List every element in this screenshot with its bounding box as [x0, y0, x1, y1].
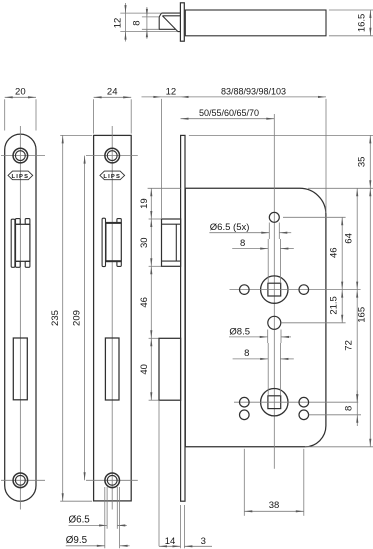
cylinder hole centerline — [281, 322, 345, 324]
svg-text:50/55/60/65/70: 50/55/60/65/70 — [199, 108, 259, 118]
dimension 16.5 extension lines — [329, 10, 373, 36]
svg-text:LIPS: LIPS — [12, 174, 30, 180]
upper follower hub — [261, 276, 288, 303]
figure2 latch bolt body — [106, 223, 121, 261]
dimension diameter 9.5 extension lines — [105, 487, 120, 548]
top view lock case — [185, 10, 326, 36]
svg-text:8: 8 — [131, 20, 142, 25]
svg-text:LIPS: LIPS — [103, 174, 121, 180]
figure2 top screw hole centerline — [86, 155, 138, 157]
dimension 16.5 line and arrows — [369, 10, 371, 36]
lower left screw holes — [240, 397, 250, 419]
figure2 vertical centerline — [111, 126, 113, 510]
dimension 20 label — [15, 87, 26, 98]
dimension 46 right label — [329, 247, 340, 258]
dimension 8 upper square extension lines — [268, 239, 280, 283]
figure1 bottom screw hole — [13, 473, 28, 488]
case top extension line — [308, 187, 373, 189]
svg-text:16.5: 16.5 — [356, 14, 367, 33]
upper follower square hole — [268, 283, 281, 296]
svg-text:235: 235 — [50, 310, 61, 326]
side view latch bolt — [162, 219, 181, 266]
figure2 latch bolt left strip — [102, 218, 105, 266]
lower follower square hole — [268, 396, 281, 409]
dimension 38 label — [269, 500, 280, 511]
figure1 latch cutout corner tabs — [16, 219, 30, 268]
dimension 83/88/93/98/103 right extension line — [325, 99, 327, 213]
dimension 235 line and arrows — [62, 135, 64, 501]
cylinder hole 8.5 — [268, 316, 281, 329]
dimension 35 label — [357, 157, 368, 168]
dimension diameter 9.5 line and arrows — [66, 545, 130, 547]
figure2 latch bolt bottom-right tab — [117, 261, 121, 266]
svg-text:24: 24 — [107, 87, 118, 98]
dimension 8 (top view) label — [131, 20, 142, 25]
svg-text:8: 8 — [343, 406, 354, 411]
dimension 12/83 shared dimension line — [142, 96, 327, 98]
dimension 35 line and arrows — [369, 135, 371, 188]
dimension diameter 6.5 line and arrows — [69, 524, 127, 526]
side view faceplate strip — [181, 135, 185, 501]
svg-text:Ø9.5: Ø9.5 — [66, 535, 88, 546]
dimension 12 (top view) label — [113, 18, 124, 29]
dimension 46 right line and arrows — [341, 217, 343, 289]
dimension 8 lower square label — [244, 348, 249, 359]
dimension 40 label — [139, 364, 150, 375]
svg-text:40: 40 — [139, 364, 150, 375]
faceplate top extension line — [189, 134, 373, 136]
dimension 8 (top view) line and arrows — [146, 7, 148, 39]
case bottom extension line — [305, 446, 373, 448]
figure1 vertical centerline — [19, 126, 21, 510]
svg-text:12: 12 — [113, 18, 124, 29]
svg-text:14: 14 — [165, 536, 176, 547]
dimension 12 (latch protrusion) extension line — [160, 99, 162, 219]
figure1 deadbolt opening — [13, 338, 27, 400]
dimension 24 line and arrows — [94, 96, 132, 98]
case vertical centerline — [273, 114, 275, 469]
svg-text:3: 3 — [201, 536, 206, 547]
figure2 latch bolt top flange line — [106, 222, 121, 224]
dimension 83/88/93/98/103 label — [221, 87, 286, 97]
lock case outline — [185, 188, 326, 447]
dimension 3 line and arrow — [184, 545, 212, 547]
left chain dimension line — [150, 188, 152, 400]
dimension 12 (top view) line and arrows — [124, 3, 126, 42]
dimension 72 label — [344, 340, 355, 351]
dimension 235 label — [50, 310, 61, 326]
figure2 latch bolt bottom flange line — [106, 260, 121, 262]
dimension 24 extension lines — [94, 99, 132, 133]
backset dimension label — [199, 108, 259, 118]
svg-text:46: 46 — [329, 247, 340, 258]
figure1 bottom screw hole centerline — [1, 479, 45, 481]
dimension 3 label — [201, 536, 206, 547]
svg-text:72: 72 — [344, 340, 355, 351]
figure1 latch cutout left strip — [11, 219, 15, 267]
svg-text:209: 209 — [72, 310, 83, 326]
dimension 20 line and arrows — [5, 96, 36, 98]
lower follower hub — [261, 389, 288, 416]
lower hub centerline — [234, 401, 358, 403]
side view deadbolt — [159, 338, 181, 400]
lower right screw holes — [299, 397, 309, 419]
svg-text:Ø6.5: Ø6.5 — [69, 515, 91, 526]
svg-text:8: 8 — [244, 348, 249, 359]
dimension 8 (top view latch face) extension lines — [142, 17, 159, 29]
left middle screw hole — [240, 285, 250, 295]
lower hole row centerline — [309, 414, 361, 416]
backset dimension 50/55/60/65/70 line and arrows — [181, 118, 275, 120]
figure1 LIPS logo — [8, 171, 33, 180]
dimension 8 lower square extension lines — [268, 343, 280, 396]
figure2 deadbolt — [105, 338, 119, 400]
dimension 38 line and arrows — [244, 510, 303, 512]
dimension 14 label — [165, 536, 176, 547]
figure1 top screw hole centerline — [1, 155, 45, 157]
dimension 209 line and arrows — [84, 156, 86, 481]
top view faceplate (edge-on) — [180, 3, 184, 41]
dimension 8 lower square line and arrows — [233, 358, 294, 360]
dimension 16.5 label — [356, 14, 367, 33]
upper hub centerline — [230, 289, 361, 291]
figure1 latch cutout main opening — [16, 224, 30, 261]
dimension 165 label — [357, 307, 368, 323]
figure1 faceplate outline (rounded ends) — [5, 134, 36, 501]
dimension 14/3 extension lines — [181, 505, 185, 548]
figure2 latch bolt top-right tab — [117, 219, 121, 223]
svg-text:35: 35 — [357, 157, 368, 168]
dimension 64 label — [344, 233, 355, 244]
dimension 72 line and arrows — [356, 290, 358, 403]
dimension 21.5 line and arrows — [341, 290, 343, 323]
svg-text:21.5: 21.5 — [329, 296, 340, 315]
dimension diameter 9.5 label — [66, 535, 88, 546]
svg-text:Ø8.5: Ø8.5 — [229, 326, 250, 337]
callout diameter 6.5 (5x) label — [210, 222, 250, 233]
dimension 30 label — [139, 237, 150, 248]
dimension 235 extension lines — [60, 135, 92, 501]
svg-text:Ø6.5 (5x): Ø6.5 (5x) — [210, 222, 250, 233]
svg-text:12: 12 — [166, 87, 177, 98]
dimension 209 label — [72, 310, 83, 326]
figure2 faceplate outline — [94, 135, 132, 501]
dimension 20 extension lines — [5, 99, 36, 130]
case top screw hole — [269, 212, 279, 222]
callout diameter 8.5 extension lines — [268, 330, 281, 344]
svg-text:20: 20 — [15, 87, 26, 98]
dimension 64 line and arrows — [356, 188, 358, 289]
left chain extension lines — [148, 188, 181, 400]
figure2 top screw hole — [105, 148, 120, 163]
svg-text:19: 19 — [139, 198, 150, 209]
svg-text:8: 8 — [240, 238, 245, 249]
callout diameter 6.5 (5x) extension lines — [269, 223, 279, 240]
dimension 8 right line and arrows — [356, 391, 358, 427]
figure1 top screw hole — [13, 148, 28, 163]
right middle screw hole — [299, 285, 309, 295]
svg-text:64: 64 — [344, 233, 355, 244]
dimension 165 line and arrows — [369, 188, 371, 447]
callout diameter 8.5 label — [229, 326, 250, 337]
dimension diameter 6.5 label — [69, 515, 91, 526]
figure2 LIPS logo — [100, 171, 125, 180]
dimension 8 upper square line and arrows — [232, 248, 294, 250]
svg-text:46: 46 — [139, 297, 150, 308]
dimension 19 label — [139, 198, 150, 209]
dimension 24 label — [107, 87, 118, 98]
dimension 14 left extension line — [158, 400, 160, 546]
dimension diameter 6.5 extension lines — [107, 487, 117, 529]
dimension 8 right label — [343, 406, 354, 411]
dimension 21.5 label — [329, 296, 340, 315]
dimension 12 (latch protrusion) label — [166, 87, 177, 98]
figure2 bottom screw hole centerline — [86, 479, 138, 481]
dimension 12 (top view latch width) extension lines — [120, 13, 177, 32]
dimension 38 extension lines — [244, 449, 303, 516]
callout diameter 8.5 line and arrows — [229, 336, 291, 338]
dimension 14 line and arrows — [159, 545, 181, 547]
top view latch bolt with bevel — [159, 13, 180, 32]
dimension 8 upper square label — [240, 238, 245, 249]
svg-text:165: 165 — [357, 307, 368, 323]
figure2 bottom screw hole — [105, 473, 120, 488]
svg-text:83/88/93/98/103: 83/88/93/98/103 — [221, 87, 286, 97]
top screw hole centerline — [283, 216, 346, 218]
svg-text:30: 30 — [139, 237, 150, 248]
dimension 46 left label — [139, 297, 150, 308]
callout diameter 6.5 (5x) line and arrows — [209, 232, 291, 234]
svg-text:38: 38 — [269, 500, 280, 511]
